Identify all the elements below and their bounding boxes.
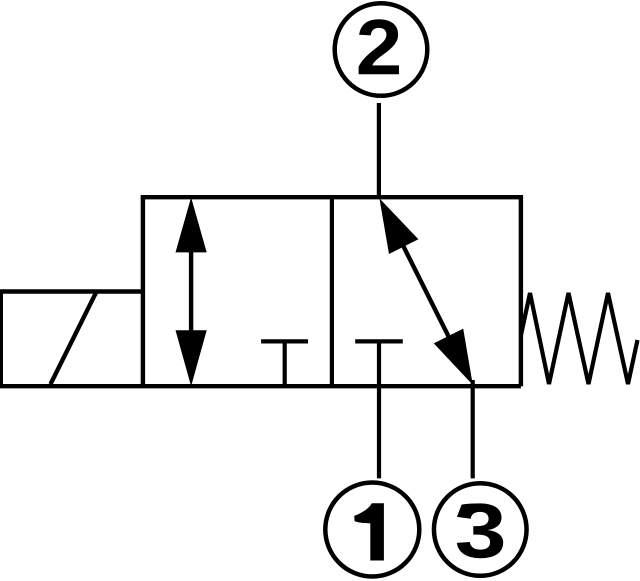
wire: divider between the two valve positions — [330, 197, 334, 386]
node circle port 1 — [325, 483, 419, 577]
wire: port 2 line from circle to valve body top — [377, 103, 381, 197]
label 3 — [457, 503, 503, 558]
blocked-port T symbol in right position — [355, 339, 403, 343]
double-headed arrow in left position — [176, 197, 207, 386]
diagonal flow arrow in right position — [379, 198, 472, 385]
spring (return spring on right side) — [521, 293, 638, 384]
wire: shared bottom line of solenoid box and valve body — [0, 384, 521, 388]
blocked-port T symbol in left position — [261, 341, 308, 386]
solenoid slash — [51, 292, 97, 384]
label 1 — [354, 503, 384, 560]
label 2 — [359, 19, 399, 74]
node circle port 3 — [434, 483, 527, 576]
wire: port 3 line from arrow tip down to circle 3 — [471, 380, 475, 478]
valve body outline (left, top, right edges) — [141, 195, 521, 386]
solenoid box (left edge and top edge) — [0, 292, 143, 387]
wire: port 1 line (T stem continuing down to circle 1) — [377, 341, 381, 478]
node circle port 2 — [335, 3, 428, 96]
